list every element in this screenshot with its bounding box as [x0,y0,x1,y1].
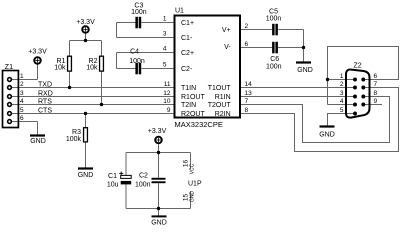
svg-text:+3.3V: +3.3V [148,128,167,135]
svg-text:C2+: C2+ [181,50,194,57]
svg-text:7: 7 [245,98,249,105]
svg-text:4: 4 [163,46,167,53]
svg-text:GND: GND [151,220,167,227]
svg-text:Z1: Z1 [5,64,13,71]
svg-text:1: 1 [340,73,344,80]
svg-text:100n: 100n [129,58,145,65]
svg-text:5: 5 [163,62,167,69]
svg-text:100n: 100n [135,181,151,188]
svg-text:14: 14 [245,81,253,88]
svg-text:4: 4 [20,98,24,105]
svg-text:T2OUT: T2OUT [208,102,232,109]
svg-text:C4: C4 [130,48,139,55]
svg-text:3: 3 [340,90,344,97]
svg-text:8: 8 [245,107,249,114]
svg-text:6: 6 [374,73,378,80]
svg-text:R2IN: R2IN [215,111,231,118]
svg-text:100n: 100n [131,9,147,16]
svg-text:8: 8 [374,90,378,97]
svg-text:C1: C1 [108,173,117,180]
svg-text:GND: GND [319,131,335,138]
svg-text:+3.3V: +3.3V [76,19,95,26]
svg-text:11: 11 [164,81,171,88]
svg-text:3: 3 [163,31,167,38]
svg-text:T2IN: T2IN [181,102,196,109]
svg-text:2: 2 [245,23,249,30]
svg-text:10u: 10u [107,181,119,188]
svg-text:100n: 100n [266,16,282,23]
svg-text:RXD: RXD [38,90,53,97]
svg-text:C2: C2 [139,173,148,180]
svg-text:T1IN: T1IN [181,85,196,92]
svg-text:RTS: RTS [38,98,52,105]
svg-text:R1IN: R1IN [215,94,231,101]
svg-text:GND: GND [30,138,46,145]
svg-text:V-: V- [224,44,231,51]
svg-text:9: 9 [167,107,171,114]
svg-text:16: 16 [182,160,189,168]
svg-text:C1+: C1+ [181,20,194,27]
svg-text:12: 12 [163,90,171,97]
svg-text:3: 3 [20,90,24,97]
svg-text:Z2: Z2 [354,62,362,69]
svg-text:GND: GND [297,67,313,74]
svg-text:10: 10 [163,98,171,105]
svg-text:T1OUT: T1OUT [208,85,232,92]
svg-text:C6: C6 [270,56,279,63]
svg-text:TXD: TXD [38,81,52,88]
svg-text:100n: 100n [266,63,282,70]
svg-text:U1: U1 [175,8,184,15]
svg-text:GND: GND [190,191,196,203]
svg-text:7: 7 [374,81,378,88]
svg-text:2: 2 [20,81,24,88]
svg-text:VCC: VCC [190,163,196,174]
svg-text:2: 2 [340,81,344,88]
svg-text:C2-: C2- [181,66,193,73]
svg-text:10k: 10k [54,64,66,71]
svg-text:U1P: U1P [188,181,202,188]
svg-text:10k: 10k [86,64,98,71]
svg-text:R1OUT: R1OUT [181,94,205,101]
svg-text:6: 6 [20,115,24,122]
svg-text:MAX3232CPE: MAX3232CPE [175,120,223,129]
svg-text:V+: V+ [222,27,231,34]
svg-text:CTS: CTS [38,107,52,114]
svg-text:C1-: C1- [181,35,193,42]
svg-text:C5: C5 [269,9,278,16]
svg-text:15: 15 [182,194,189,202]
svg-text:4: 4 [340,98,344,105]
svg-text:R2OUT: R2OUT [181,111,205,118]
svg-text:1: 1 [163,16,167,23]
svg-text:5: 5 [20,107,24,114]
svg-text:1: 1 [20,73,24,80]
svg-text:+3.3V: +3.3V [28,48,47,55]
svg-text:9: 9 [374,98,378,105]
svg-text:6: 6 [245,41,249,48]
svg-text:5: 5 [340,107,344,114]
svg-text:GND: GND [78,172,94,179]
svg-text:100k: 100k [66,136,82,143]
svg-text:13: 13 [245,90,253,97]
